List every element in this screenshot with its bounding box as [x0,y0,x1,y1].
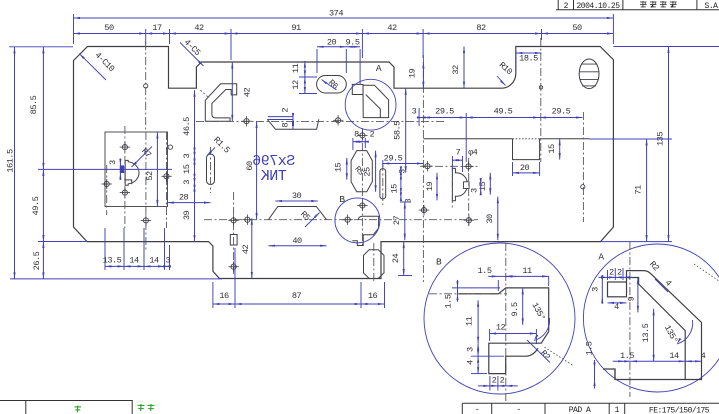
detail B dim 9.5 [510,288,524,325]
centerline mid-left column [145,132,147,250]
svg-text:9: 9 [626,296,636,301]
svg-text:161.5: 161.5 [5,149,15,173]
horizontal centerline upper [196,120,445,122]
detail A shape [603,271,702,380]
detail A label R2 [647,259,661,273]
ext lines 20/9.5 [317,49,360,84]
svg-text:71: 71 [634,185,644,195]
ring marker right [581,185,585,189]
dim 2/8 mid [268,108,294,130]
svg-text:42: 42 [241,245,251,255]
svg-text:39: 39 [182,211,192,221]
upper-left hook cutout [200,84,236,121]
detail B dim 1.5 left [443,280,500,309]
dim 71 [634,139,648,242]
svg-text:14: 14 [669,351,679,361]
svg-text:S.A: S.A [705,2,719,11]
dim 3 dtab [469,178,482,195]
svg-text:17: 17 [152,23,162,33]
dim 16/87/16 [213,248,385,308]
detail B dim 12 [490,323,537,344]
svg-text:3: 3 [108,160,118,165]
svg-text:32: 32 [451,65,461,75]
svg-text:60: 60 [245,161,255,171]
small rectangular tab [230,235,237,246]
svg-text:40: 40 [292,236,302,246]
dim 60 [245,121,258,219]
target marker b [120,142,130,152]
svg-text:4: 4 [614,302,619,312]
svg-text:13.5: 13.5 [103,256,122,266]
fold edge line with notch [423,138,589,140]
detail A dim 4 square [608,302,627,312]
svg-text:24: 24 [391,254,401,264]
dim 46.5 [182,90,196,154]
target marker n [464,215,474,225]
dim 3 stake [108,158,122,180]
svg-text:11: 11 [291,64,301,74]
label B small [339,194,345,205]
detail B dim 4 [465,356,479,373]
label A small [376,63,382,74]
target marker a [102,179,112,189]
target marker q [242,215,252,225]
centerline R7 column [124,126,126,228]
svg-text:2: 2 [280,108,290,113]
svg-text:A: A [376,63,382,74]
detail A dotted projection [694,264,719,281]
svg-text:11: 11 [465,317,475,327]
svg-text:2: 2 [609,267,614,277]
svg-text:3: 3 [590,287,600,292]
dim 15 notch [547,139,561,160]
dim 3/15/3 slot2 [390,166,414,203]
svg-text:49.5: 49.5 [494,107,513,117]
dim 30/40 trap [268,191,326,247]
svg-text:42: 42 [194,23,204,33]
svg-text:42: 42 [243,88,253,98]
svg-text:2: 2 [500,375,505,385]
svg-text:27: 27 [392,216,402,226]
dim 8/2 [353,129,375,150]
svg-text:PAD A: PAD A [569,406,591,414]
feature R7 D-shaped lance [124,160,139,185]
stake mark (filled) [120,165,124,173]
svg-text:B: B [436,257,442,268]
svg-text:50: 50 [104,23,114,33]
svg-text:3: 3 [182,154,192,159]
svg-text:18.5: 18.5 [519,54,538,64]
svg-text:12: 12 [291,80,301,90]
dim 28 [167,193,210,204]
detail B dim 135deg [529,301,549,341]
svg-text:15: 15 [547,144,557,154]
svg-text:46.5: 46.5 [182,117,192,136]
detail A circle [583,244,719,392]
inner sub-panel rectangle [105,132,168,207]
svg-text:26.5: 26.5 [32,251,42,270]
label R5 trap [298,209,319,227]
dim 20/9.5 [317,37,360,48]
svg-text:8: 8 [280,123,290,128]
dim 15 dtab [478,173,491,195]
svg-text:50: 50 [572,23,582,33]
part outline (stamped plate) [74,47,614,279]
svg-text:2004.10.25: 2004.10.25 [576,2,620,11]
svg-text:TNK: TNK [261,168,287,185]
centerline right column [582,112,584,222]
svg-text:15: 15 [390,184,400,194]
detail B dotted projection [545,347,575,366]
svg-text:29.5: 29.5 [552,107,571,117]
svg-text:91: 91 [291,23,301,33]
detail A dim 1.5 v [585,341,596,388]
detail B dim 11 left [465,300,480,343]
svg-text:85.5: 85.5 [29,95,39,114]
svg-text:30: 30 [485,214,495,224]
svg-text:374: 374 [329,9,343,19]
detail B dim 3 [466,343,480,356]
svg-text:1: 1 [615,406,620,414]
svg-text:15: 15 [182,164,192,174]
svg-text:7: 7 [456,148,461,158]
centerline left block [145,42,147,130]
label R5 hex1 [352,165,365,178]
label 4-C10 [79,50,116,80]
detail A dim 13.5 [641,309,655,361]
target marker c [120,187,130,197]
mirrored part number SX796 TNK [252,153,295,185]
target marker o [228,215,238,225]
detail B circle [424,243,575,394]
dim 42 lower [241,218,253,278]
dim 374 [74,9,614,20]
dim row 3/29.5/49.5/29.5 [412,107,583,162]
label B detail [436,257,442,268]
svg-text:28: 28 [179,193,189,203]
hexagon boss 1 [351,151,372,192]
detail A centerline v [629,242,631,397]
svg-text:FE:175/150/175: FE:175/150/175 [649,407,710,414]
dim 85.5 [29,47,45,169]
svg-text:8: 8 [354,129,359,139]
svg-text:15: 15 [478,182,488,192]
svg-text:1.5: 1.5 [478,266,492,276]
svg-text:29.5: 29.5 [435,107,454,117]
target marker r [342,215,352,225]
svg-text:87: 87 [292,291,302,301]
svg-text:1.5: 1.5 [620,351,634,361]
left ext lines [9,47,222,279]
upper-right hook cutout (detail A feature) [352,84,388,117]
detail A dim 4 band [655,278,673,292]
svg-text:16: 16 [368,291,378,301]
dim 30 right [485,197,499,241]
slot 2 (right obround) [380,169,386,199]
hexagon boss 2 [364,250,385,279]
right ext lines [589,47,719,242]
dim 24 [391,242,412,276]
horizontal centerline D-tab row [420,165,478,167]
target marker h [333,115,343,125]
centerline tab column [233,192,235,274]
svg-text:3: 3 [469,188,479,193]
centerline notch column [540,38,542,162]
centerline hex2 [373,243,375,283]
detail B dim 1.5 top [478,266,516,291]
svg-text:42: 42 [387,23,397,33]
dim 39 [182,185,195,242]
dim 135 [656,47,670,242]
dim 42 mid [231,62,252,121]
svg-text:3: 3 [412,107,417,117]
centerline hex1/B column [361,128,363,248]
target marker l [419,205,429,215]
dim 19 right [408,62,425,88]
detail A dim 2/2 top [599,267,633,280]
svg-text:135: 135 [656,132,666,146]
target marker j [357,200,367,210]
svg-text:20: 20 [520,163,530,173]
detail A dim 9 [626,277,639,312]
detail A dim 135deg [662,320,693,345]
dim 15 hex1 [334,158,348,180]
centerline slot1 [210,147,212,193]
bottom right table [462,403,719,414]
detail B dim 2/2 [478,375,518,390]
svg-text:20: 20 [327,37,337,47]
detail indicator circle A [345,79,396,130]
target marker m [463,161,473,171]
target marker p [228,262,238,272]
trapezoid bump on centerline [268,207,326,220]
dim 7 phi4 [452,147,477,172]
dim 26.5 [32,242,45,279]
svg-text:4: 4 [701,351,706,361]
bottom left table [0,401,155,414]
svg-text:-: - [475,405,480,414]
svg-text:15: 15 [334,163,344,173]
dim 3/15/3 slot1 [182,152,196,187]
label 4-C5 [180,37,204,66]
svg-text:30: 30 [292,191,302,201]
dim 20 notch [513,162,540,176]
svg-text:14: 14 [149,256,159,266]
svg-text:19: 19 [425,182,435,192]
svg-text:2: 2 [564,2,569,11]
svg-text:9.5: 9.5 [346,37,360,47]
dim 18.5 [516,50,542,71]
target marker i [357,130,367,140]
svg-text:19: 19 [408,69,418,79]
ext lines top [74,14,614,60]
svg-text:9.5: 9.5 [510,302,520,316]
centerline slot2 [382,163,384,205]
svg-text:φ4: φ4 [468,147,478,157]
target marker d [168,145,172,149]
detail A dim 3 [590,275,603,304]
svg-text:A: A [598,252,604,263]
detail A square [608,282,627,297]
detail B dim 11 top [506,266,549,286]
horizontal centerline lower [204,219,478,221]
dim row 50/17/42/91/42/82/50 [74,23,614,34]
svg-text:13.5: 13.5 [641,323,651,342]
feature D-tab with phi4 [452,168,469,200]
detail B ext lines [471,356,504,373]
trapezoid notch below centerline [267,119,319,129]
centerline phi4 column [468,158,470,228]
centerline rect right col [166,132,168,228]
label R6 oval [322,78,340,92]
svg-text:14: 14 [129,256,139,266]
hatched barrel hole [579,59,599,89]
svg-text:29.5: 29.5 [384,153,403,163]
detail B label R2 [527,340,552,363]
centerline D-tab [451,165,453,208]
target marker f [141,215,151,225]
svg-text:1.5: 1.5 [585,341,595,355]
label R10 [497,60,514,85]
target marker e [161,171,171,181]
dim 32 [451,47,465,89]
ring marker mid [539,86,542,89]
oval R6 cutout [317,76,347,94]
svg-text:11: 11 [522,266,532,276]
svg-text:2: 2 [369,129,374,139]
svg-text:16: 16 [219,291,229,301]
centerline main vertical [422,55,424,282]
revision table [556,0,719,11]
detail B centerline v [505,243,507,401]
svg-text:2: 2 [617,267,622,277]
svg-text:82: 82 [476,23,486,33]
slot 1 (left obround) [207,154,215,185]
centerline small left [106,165,108,215]
dim 27 [392,202,411,240]
target marker g [241,116,251,126]
dim 52 [145,132,159,206]
svg-text:52: 52 [145,171,155,181]
dim 19 dtab [425,173,438,201]
lower hook cutout (detail B feature) [352,216,378,245]
label R7 [132,146,153,167]
svg-text:2: 2 [492,375,497,385]
dim 29.5 mid [383,153,424,167]
svg-text:3: 3 [466,347,476,352]
detail B centerline h [429,293,507,295]
dim 161.5 [5,47,15,279]
svg-text:12: 12 [496,323,506,333]
dim 11/12 [291,61,317,94]
dim 25 hex1 [363,151,377,192]
ring marker left [144,84,148,88]
svg-text:4: 4 [465,360,475,365]
svg-text:49.5: 49.5 [31,196,41,215]
svg-text:1.5: 1.5 [443,294,453,308]
target marker k [422,161,432,171]
detail A dim row 1.5/14/4 [613,351,706,363]
dim 49.5 [31,169,45,241]
label R1.5 [207,135,232,156]
dim 13.5/14/14/3 [103,228,171,270]
detail indicator circle B [335,198,380,243]
svg-text:58.5: 58.5 [393,121,403,140]
svg-text:-: - [516,405,521,414]
rect notch in fold edge [513,139,540,160]
svg-text:3: 3 [182,180,192,185]
svg-text:3: 3 [165,256,170,266]
label A detail [598,252,604,263]
dim 58.5 [393,88,407,173]
detail B shape [458,288,548,374]
svg-text:B: B [339,194,345,205]
